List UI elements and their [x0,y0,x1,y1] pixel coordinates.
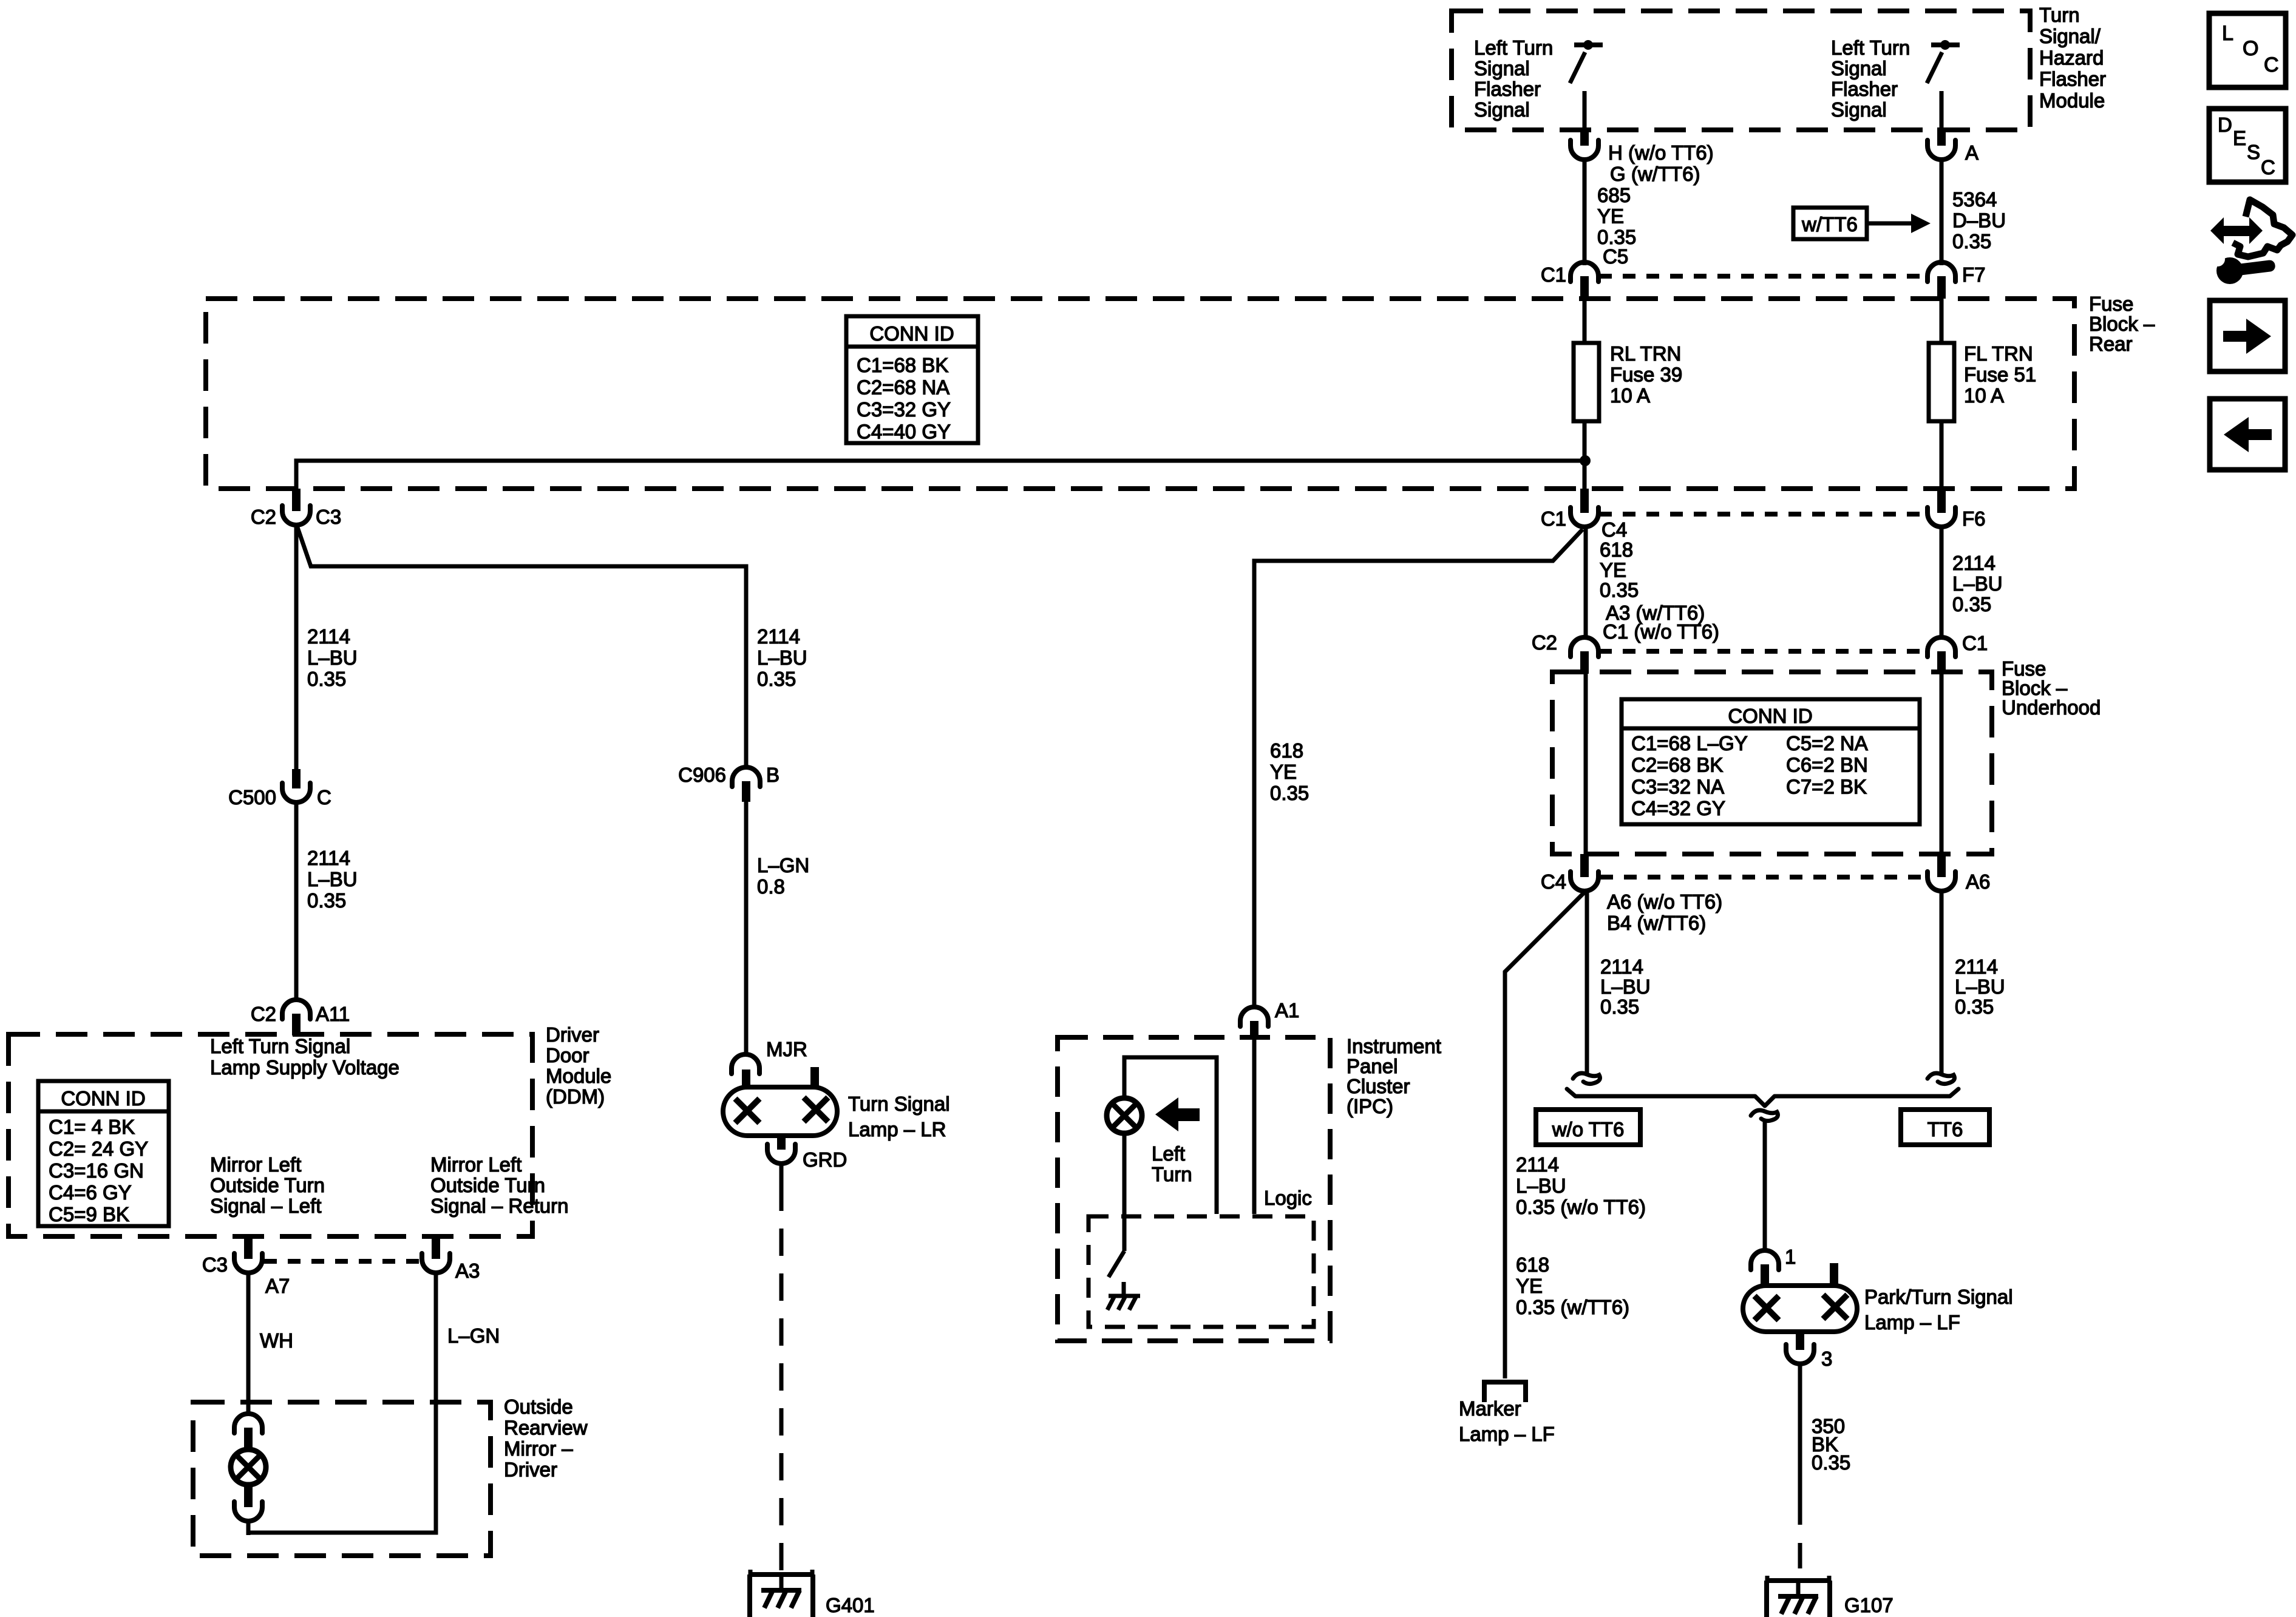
svg-text:0.35: 0.35 [1812,1451,1850,1474]
merge squiggle [1751,1110,1778,1120]
svg-text:Rear: Rear [2089,333,2133,355]
svg-text:2114: 2114 [1952,552,1995,574]
label C906 [678,764,726,786]
ground G107 [1765,1576,1831,1617]
label C3 (exit) [202,1253,228,1276]
svg-text:C4=40 GY: C4=40 GY [857,421,951,443]
box w/o TT6 [1536,1110,1640,1145]
svg-text:C3=32 GY: C3=32 GY [857,398,951,421]
wire to G401 [779,1163,784,1573]
svg-text:0.35: 0.35 [757,668,796,690]
svg-text:YE: YE [1600,558,1626,581]
svg-text:F6: F6 [1962,507,1986,530]
svg-text:Driver: Driver [504,1459,557,1481]
fuse block rear dashed box [206,299,2074,489]
IPC switch [1109,1133,1124,1277]
merge bracket [1567,1089,1958,1106]
svg-text:0.35 (w/o TT6): 0.35 (w/o TT6) [1516,1196,1646,1218]
svg-text:Left Turn: Left Turn [1474,36,1553,59]
svg-text:0.35: 0.35 [307,668,346,690]
svg-text:C1=68 L–GY: C1=68 L–GY [1631,732,1748,754]
label C1 (row A) [1541,263,1566,286]
label Left Turn (IPC) [1152,1142,1192,1185]
connector A1 [1240,1007,1268,1039]
label C1 (row C right) [1962,632,1988,654]
svg-text:Driver: Driver [546,1023,599,1046]
connector H/G (module pin, left) [1571,127,1598,160]
svg-text:10 A: 10 A [1610,384,1650,407]
svg-text:Left Turn: Left Turn [1831,36,1910,59]
svg-text:RL TRN: RL TRN [1610,342,1681,365]
svg-text:L–BU: L–BU [1516,1175,1566,1197]
svg-text:L–BU: L–BU [1952,572,2003,595]
svg-text:Module: Module [2039,89,2105,112]
svg-text:Fuse 39: Fuse 39 [1610,364,1682,386]
junction dot (to DDM feed) [1580,455,1591,466]
svg-text:Turn: Turn [1152,1163,1192,1185]
svg-text:L–BU: L–BU [307,646,358,669]
IPC left arrow [1155,1097,1200,1131]
wire merge to lamp LF [1763,1122,1767,1250]
label 2114 L-BU 0.35 (branch) [757,625,807,690]
svg-text:Lamp – LF: Lamp – LF [1459,1423,1555,1445]
long feed wire to DDM column [296,461,1585,489]
svg-text:L–BU: L–BU [1600,975,1651,998]
label 2114 L-BU 0.35 (upper left) [307,625,358,690]
connector 3 (lamp LF bottom) [1786,1332,1814,1364]
label 618 YE 0.35 (w/TT6) [1516,1253,1629,1318]
label 2114 L-BU 0.35 (right lower) [1955,955,2005,1018]
svg-text:YE: YE [1597,205,1624,228]
svg-text:3: 3 [1821,1347,1832,1370]
svg-text:Hazard: Hazard [2039,46,2104,69]
connector C1 (row C right) [1927,637,1955,674]
svg-text:C5=2 NA: C5=2 NA [1786,732,1868,754]
svg-text:C2=68 BK: C2=68 BK [1631,754,1723,776]
branch to turn signal lamp LR [297,526,746,768]
label A6 [1966,870,1990,893]
svg-text:(IPC): (IPC) [1347,1095,1393,1117]
svg-text:C3=16 GN: C3=16 GN [49,1159,144,1182]
svg-text:C1: C1 [1541,263,1566,286]
box TT6 [1901,1110,1989,1145]
svg-text:A7: A7 [265,1275,290,1297]
svg-text:Fuse 51: Fuse 51 [1964,364,2036,386]
connector C4 (row D left) [1571,854,1598,891]
svg-text:Cluster: Cluster [1347,1075,1410,1097]
fuse RL TRN Fuse 39 [1574,343,1599,421]
svg-text:Mirror Left: Mirror Left [430,1153,521,1176]
label A11 [316,1003,350,1025]
svg-text:Lamp – LF: Lamp – LF [1864,1311,1960,1334]
dotted connector line C1-F7 [1599,274,1927,279]
label GRD [803,1148,847,1171]
label C2 (row C) [1532,631,1557,654]
svg-text:D: D [2218,114,2232,136]
wire C4 down (2114 L-BU w/o TT6) [1585,890,1589,1076]
conn id table (underhood) [1622,699,1920,824]
svg-text:w/o TT6: w/o TT6 [1552,1118,1625,1141]
svg-text:Signal: Signal [1831,57,1887,80]
svg-text:Lamp – LR: Lamp – LR [848,1118,946,1141]
svg-text:GRD: GRD [803,1148,847,1171]
svg-text:2114: 2114 [1600,955,1643,978]
mirror dashed box [193,1402,491,1556]
IPC internal wiring [1124,1039,1254,1214]
svg-text:Marker: Marker [1459,1397,1521,1420]
svg-text:685: 685 [1597,184,1631,206]
svg-text:L–GN: L–GN [447,1324,500,1347]
svg-text:C: C [2261,156,2275,178]
svg-text:C4: C4 [1601,518,1627,541]
label Left Turn Signal Flasher Signal (right) [1831,36,1910,121]
label C2 (DDM) [251,1003,276,1025]
label 350 BK 0.35 [1812,1415,1850,1474]
svg-text:Outside Turn: Outside Turn [430,1174,545,1196]
dotted connector line row D [1600,875,1923,880]
mirror lamp bottom wire [246,1520,251,1535]
label F6 [1962,507,1986,530]
svg-text:C1: C1 [1962,632,1988,654]
svg-text:TT6: TT6 [1927,1118,1963,1141]
label 2114 L-BU 0.35 (lower left) [307,847,358,912]
wire through underhood right [1940,674,1944,854]
label G401 [826,1594,875,1616]
svg-text:CONN ID: CONN ID [61,1087,145,1110]
svg-text:(DDM): (DDM) [546,1085,605,1108]
svg-text:0.35: 0.35 [1270,782,1309,804]
svg-text:618: 618 [1516,1253,1549,1276]
DDM dashed box [8,1034,532,1236]
svg-text:G107: G107 [1844,1594,1894,1616]
svg-text:Left Turn Signal: Left Turn Signal [210,1035,350,1057]
wire into RL TRN fuse [1583,299,1587,343]
svg-text:C4=6 GY: C4=6 GY [49,1181,132,1204]
svg-text:C: C [2264,53,2279,76]
label H (w/o TT6) G (w/TT6) [1608,141,1714,185]
svg-text:C3: C3 [316,506,341,528]
label Instrument Panel Cluster (IPC) [1347,1035,1441,1117]
wire C906 to MJR [744,802,749,1057]
IPC switch ground [1107,1282,1140,1310]
svg-text:Flasher: Flasher [2039,68,2106,90]
svg-text:C4=32 GY: C4=32 GY [1631,797,1725,819]
svg-text:Park/Turn Signal: Park/Turn Signal [1864,1286,2013,1308]
svg-text:G (w/TT6): G (w/TT6) [1610,163,1700,185]
svg-text:Logic: Logic [1264,1187,1312,1209]
connector C2/A11 (DDM entry) [282,1000,310,1036]
svg-text:2114: 2114 [757,625,800,648]
svg-text:Mirror –: Mirror – [504,1437,573,1460]
svg-text:Fuse: Fuse [2089,293,2133,315]
connector C2 (row C left) [1571,637,1598,674]
lamp Park/Turn Signal LF body [1743,1263,1857,1332]
wire A6 down (2114 L-BU) [1940,890,1944,1076]
svg-text:618: 618 [1600,538,1633,561]
svg-text:C2= 24 GY: C2= 24 GY [49,1137,148,1160]
label Left Turn Signal Lamp Supply Voltage [210,1035,399,1079]
label L-GN [447,1324,500,1347]
connector A (module pin, right) [1927,127,1955,160]
svg-text:A1: A1 [1275,999,1299,1022]
wire to FL TRN fuse [1940,299,1944,343]
svg-text:C2: C2 [251,1003,276,1025]
connector C1/C4 (row B left) [1571,489,1598,527]
connector C500/C [282,769,310,802]
svg-text:1: 1 [1785,1246,1796,1268]
wire C500 to DDM [294,802,299,1001]
label C3 (feed) [316,506,341,528]
connector F6 (row B right) [1927,489,1955,527]
svg-text:C3=32 NA: C3=32 NA [1631,775,1724,798]
svg-text:YE: YE [1270,761,1297,783]
svg-text:D–BU: D–BU [1952,209,2006,232]
svg-text:H (w/o TT6): H (w/o TT6) [1608,141,1714,164]
label Outside Rearview Mirror - Driver [504,1395,588,1481]
svg-text:5364: 5364 [1952,188,1997,211]
icon component locator (arrows and wrench) [2210,200,2292,284]
svg-text:C3: C3 [202,1253,228,1276]
svg-text:B: B [766,764,779,786]
svg-text:FL TRN: FL TRN [1964,342,2033,365]
wire C2C3 to C500 [294,524,299,769]
svg-text:Panel: Panel [1347,1055,1398,1077]
svg-text:C4: C4 [1541,870,1566,893]
svg-text:A6 (w/o TT6): A6 (w/o TT6) [1607,890,1722,913]
wire FL fuse to F6 exit [1940,421,1944,489]
label Fuse Block - Rear [2089,293,2155,355]
icon arrow right box [2210,300,2285,371]
svg-text:L–GN: L–GN [757,854,809,876]
label Logic [1264,1187,1312,1209]
label A [1965,141,1978,164]
svg-text:0.35: 0.35 [307,889,346,912]
connector A6 (row D right) [1927,854,1955,891]
logic dashed box [1089,1216,1314,1327]
connector C906/B [732,767,760,802]
label A7 [265,1275,290,1297]
svg-text:Outside Turn: Outside Turn [210,1174,325,1196]
svg-text:C1=68 BK: C1=68 BK [857,354,948,376]
w/TT6 flag box with arrow [1793,208,1931,239]
svg-text:0.35: 0.35 [1952,593,1991,615]
svg-text:A3: A3 [455,1259,480,1282]
svg-text:Left: Left [1152,1142,1185,1165]
label 618 YE 0.35 (IPC wire) [1270,739,1309,804]
svg-text:C5=9 BK: C5=9 BK [49,1203,129,1225]
svg-text:0.35: 0.35 [1955,995,1994,1018]
IPC left turn indicator lamp [1107,1098,1142,1133]
svg-text:C2: C2 [1532,631,1557,654]
label C1 (row B) [1541,507,1566,530]
mirror turn signal lamp [231,1449,266,1485]
svg-text:C2: C2 [251,506,276,528]
dotted connector line row B [1599,512,1923,517]
connector MJR [732,1054,759,1074]
label C4 (row D) [1541,870,1566,893]
svg-text:w/TT6: w/TT6 [1801,213,1858,236]
label C2 (feed) [251,506,276,528]
label C [317,786,331,808]
svg-text:Turn Signal: Turn Signal [848,1093,950,1115]
svg-text:Flasher: Flasher [1474,78,1541,100]
connector 1 (lamp LF) [1751,1250,1779,1286]
svg-text:MJR: MJR [766,1038,807,1060]
svg-text:B4 (w/TT6): B4 (w/TT6) [1607,912,1706,934]
icon LOC box [2209,13,2286,87]
marker lamp staple [1484,1382,1526,1402]
label Park/Turn Signal Lamp - LF [1864,1286,2013,1334]
svg-text:YE: YE [1516,1275,1543,1297]
label 2114 L-BU 0.35 (right upper) [1952,552,2003,615]
label A6/B4 pins [1607,890,1722,934]
terminal hook left [1573,1073,1600,1083]
svg-text:L–BU: L–BU [307,868,358,890]
label Driver Door Module (DDM) [546,1023,611,1108]
svg-text:E: E [2233,127,2246,149]
svg-text:O: O [2243,37,2258,60]
label F7 [1962,263,1986,286]
svg-text:Instrument: Instrument [1347,1035,1441,1057]
svg-text:Signal – Return: Signal – Return [430,1195,568,1217]
fuse FL TRN Fuse 51 [1929,343,1954,421]
label 3 [1821,1347,1832,1370]
svg-text:WH: WH [260,1329,293,1352]
branch wire 618 to IPC [1254,529,1583,1006]
connector C2/C3 (DDM feed) [282,489,310,525]
svg-text:C2=68 NA: C2=68 NA [857,376,949,399]
svg-text:C500: C500 [228,786,276,808]
svg-text:CONN ID: CONN ID [1728,705,1812,727]
terminal hook right [1927,1073,1954,1083]
mirror lamp connector top [234,1414,262,1448]
svg-text:C7=2 BK: C7=2 BK [1786,775,1867,798]
module box: Turn Signal/Hazard Flasher Module [1452,11,2030,130]
svg-text:A6: A6 [1966,870,1990,893]
label Fuse Block - Underhood [2002,657,2101,719]
svg-text:Flasher: Flasher [1831,78,1898,100]
label 2114 L-BU 0.35 (left lower) [1600,955,1651,1018]
label G107 [1844,1594,1894,1616]
svg-text:L–BU: L–BU [1955,975,2005,998]
svg-text:0.8: 0.8 [757,875,785,898]
svg-text:2114: 2114 [307,625,350,648]
label Mirror Left Outside Turn Signal - Left [210,1153,325,1217]
svg-text:2114: 2114 [1516,1153,1559,1176]
svg-text:0.35: 0.35 [1600,995,1639,1018]
svg-text:Signal – Left: Signal – Left [210,1195,321,1217]
IPC dashed box [1058,1037,1330,1341]
svg-text:C1 (w/o TT6): C1 (w/o TT6) [1603,620,1719,643]
dotted connector line DDM [264,1259,421,1264]
svg-text:Signal: Signal [1474,57,1530,80]
svg-text:Signal/: Signal/ [2039,25,2101,47]
icon arrow left box [2210,399,2285,470]
wire 5364 D-BU (flasher to fuse block, right) [1940,158,1944,265]
label RL TRN Fuse 39 10 A [1610,342,1682,407]
wire 685 YE (flasher to fuse block, left) [1583,158,1587,265]
svg-text:C: C [317,786,331,808]
wire C1 to C2 (618 YE) [1584,526,1588,638]
wire 350 BK [1798,1363,1802,1578]
svg-text:Outside: Outside [504,1395,573,1418]
svg-text:Door: Door [546,1044,589,1066]
label Mirror Left Outside Turn Signal - Return [430,1153,568,1217]
connector F7 (row A right) [1927,262,1955,299]
svg-text:Block –: Block – [2089,313,2155,335]
conn id table (fuse block rear) [846,316,978,443]
label Turn Signal Lamp - LR [848,1093,950,1141]
dotted connector line row C [1599,649,1923,654]
svg-text:618: 618 [1270,739,1303,762]
wire RL fuse to C1 exit with junction [1583,421,1587,489]
svg-text:CONN ID: CONN ID [869,322,954,345]
svg-text:Signal: Signal [1474,98,1530,121]
svg-text:C1: C1 [1541,507,1566,530]
icon DESC box [2209,109,2286,182]
svg-text:Turn: Turn [2039,4,2080,26]
svg-text:Lamp Supply Voltage: Lamp Supply Voltage [210,1056,399,1079]
svg-text:Underhood: Underhood [2002,696,2101,719]
wire through underhood left [1584,674,1588,854]
wire to marker lamp LF [1505,892,1585,1378]
svg-text:0.35: 0.35 [1600,579,1639,602]
connector C1 (row A left) [1571,262,1598,299]
svg-text:Mirror Left: Mirror Left [210,1153,301,1176]
svg-text:0.35: 0.35 [1952,230,1991,253]
svg-text:2114: 2114 [307,847,350,869]
flasher switch left (Left Turn Signal Flasher Signal) [1570,40,1603,130]
svg-text:10 A: 10 A [1964,384,2004,407]
svg-text:2114: 2114 [1955,955,1998,978]
label WH [260,1329,293,1352]
svg-text:Rearview: Rearview [504,1417,588,1439]
svg-text:L–BU: L–BU [757,646,807,669]
svg-text:C6=2 BN: C6=2 BN [1786,754,1868,776]
lamp Turn Signal LR body [723,1067,837,1136]
svg-text:F7: F7 [1962,263,1986,286]
svg-text:A: A [1965,141,1978,164]
connector A3 (DDM exit right) [422,1236,450,1273]
flasher switch right (Left Turn Signal Flasher Signal) [1927,40,1960,130]
label 2114 L-BU 0.35 (w/o TT6) [1516,1153,1646,1218]
svg-text:A11: A11 [316,1003,350,1025]
ground G401 [749,1570,814,1617]
wire L-GN (mirror return) [248,1272,436,1533]
svg-text:C5: C5 [1603,245,1628,268]
label FL TRN Fuse 51 10 A [1964,342,2036,407]
label L-GN 0.8 [757,854,809,898]
label 5364 D-BU 0.35 [1952,188,2006,253]
label Left Turn Signal Flasher Signal (left) [1474,36,1553,121]
svg-text:C1= 4 BK: C1= 4 BK [49,1116,135,1138]
svg-text:L: L [2222,22,2233,45]
label Turn Signal/Hazard Flasher Module [2039,4,2106,112]
label C4 (row B pin) stack [1600,518,1719,643]
label Marker Lamp - LF [1459,1397,1555,1445]
label 1 [1785,1246,1796,1268]
label A3 (exit) [455,1259,480,1282]
wire WH [246,1272,251,1415]
svg-text:Module: Module [546,1065,611,1087]
label B [766,764,779,786]
conn id table (DDM) [38,1081,169,1226]
svg-text:C906: C906 [678,764,726,786]
svg-text:Signal: Signal [1831,98,1887,121]
svg-text:0.35 (w/TT6): 0.35 (w/TT6) [1516,1296,1629,1318]
label MJR [766,1038,807,1060]
wire F6 to C1 (2114 L-BU) [1940,526,1944,638]
